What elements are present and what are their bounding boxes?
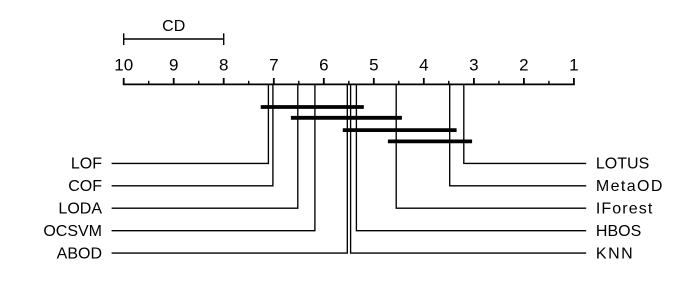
svg-text:KNN: KNN [596,245,634,262]
ABOD [112,84,348,253]
LODA [112,84,298,208]
svg-text:7: 7 [269,56,278,75]
svg-text:LOF: LOF [71,156,102,173]
clique bars [261,107,472,141]
svg-text:5: 5 [369,56,378,75]
algorithm connector lines [112,84,587,253]
major ticks [124,78,574,84]
svg-text:6: 6 [319,56,328,75]
svg-text:4: 4 [419,56,428,75]
right labels [596,156,664,263]
svg-text:ABOD: ABOD [57,245,102,262]
HBOS [356,84,586,230]
svg-text:1: 1 [569,56,578,75]
svg-text:8: 8 [219,56,228,75]
svg-text:OCSVM: OCSVM [43,223,102,240]
svg-text:10: 10 [114,56,133,75]
svg-text:3: 3 [469,56,478,75]
svg-text:IForest: IForest [596,201,654,218]
CD interval bar [124,33,224,45]
svg-text:LOTUS: LOTUS [596,156,649,173]
OCSVM [112,84,315,230]
svg-text:9: 9 [169,56,178,75]
axis line [123,83,575,85]
svg-text:CD: CD [162,18,185,35]
minor ticks [149,81,549,85]
MetaOD [450,84,587,185]
svg-text:COF: COF [68,178,102,195]
svg-text:HBOS: HBOS [596,223,641,240]
left labels [43,156,102,263]
axis tick labels [114,56,578,75]
svg-text:MetaOD: MetaOD [596,178,664,195]
LOF [112,84,269,163]
KNN [351,84,587,253]
LOTUS [464,84,586,163]
IForest [396,84,586,208]
svg-text:2: 2 [519,56,528,75]
COF [112,84,273,185]
svg-text:LODA: LODA [58,201,102,218]
